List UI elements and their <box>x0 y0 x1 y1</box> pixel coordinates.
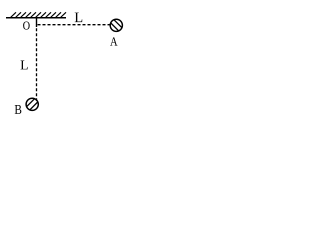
ball B <box>26 98 38 110</box>
wire: vertical dashed cord O to B <box>36 28 38 101</box>
label L vertical <box>21 61 28 70</box>
label A <box>110 37 117 45</box>
label B <box>15 105 22 114</box>
label O <box>23 22 30 30</box>
ball A <box>110 19 122 31</box>
node O suspension segment <box>36 18 38 27</box>
wire: horizontal dashed cord O to A <box>38 24 110 26</box>
ceiling hatching <box>11 12 67 17</box>
ceiling line <box>6 17 66 19</box>
label L horizontal <box>75 13 83 22</box>
